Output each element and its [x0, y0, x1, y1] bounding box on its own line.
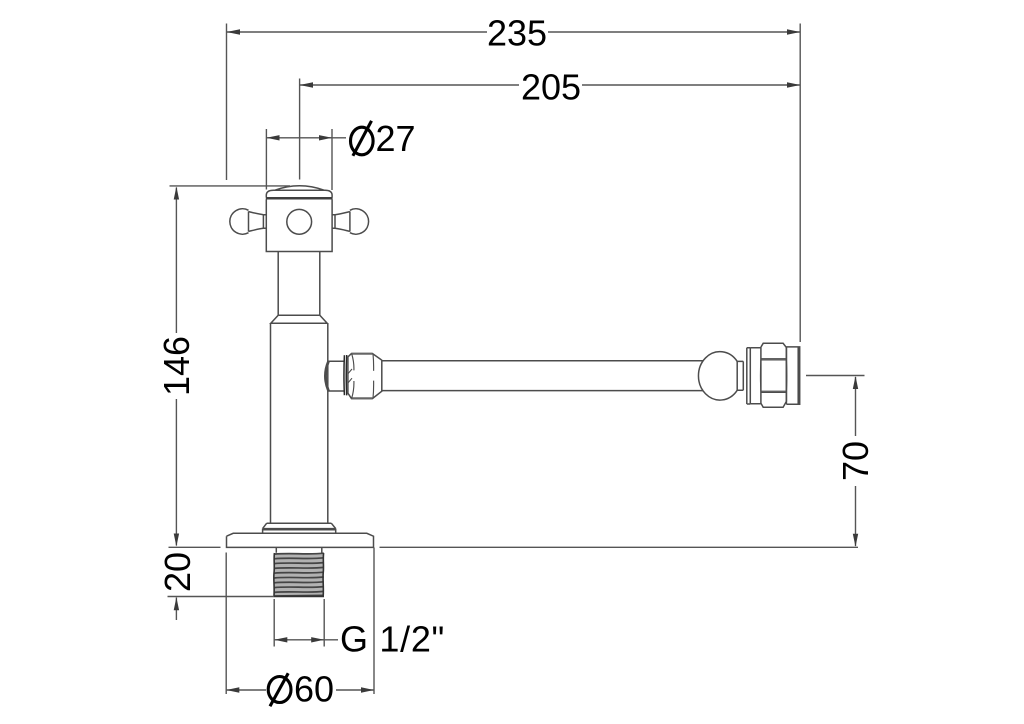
left knob stem top edge: [249, 212, 264, 215]
ext line 70 top: [806, 375, 865, 377]
dim line 205: [300, 84, 801, 86]
svg-text:60: 60: [294, 669, 334, 710]
arrow 146 top: [174, 187, 179, 200]
valve body: [266, 199, 332, 251]
right ball: [698, 352, 737, 400]
arrow 70 bottom: [853, 534, 858, 547]
thread block fill: [274, 553, 324, 596]
dim line d27: [266, 137, 346, 139]
arrow 20 bottom: [174, 597, 179, 610]
diameter symbol d27: [351, 121, 374, 156]
valve body center circle: [287, 209, 312, 234]
arrow 70 top: [853, 376, 858, 389]
outlet stub top and bottom: [328, 361, 344, 391]
arrow G12 left: [274, 637, 287, 642]
right nut facet lines: [762, 359, 786, 393]
ext line 146 top: [170, 185, 291, 187]
arrow 146 bottom: [174, 534, 179, 547]
right nut mid face bulges: [760, 360, 786, 391]
right nut outline: [761, 343, 787, 407]
base flange: [227, 533, 374, 547]
svg-text:70: 70: [835, 441, 876, 481]
nut mid ticks: [348, 369, 352, 383]
nut top bottom thick: [352, 354, 373, 399]
thread lines: [274, 553, 324, 596]
outlet stub end arcs: [325, 361, 329, 391]
valve cap band: [266, 190, 332, 197]
diameter symbol d60: [268, 673, 291, 706]
right rim washer: [747, 348, 751, 404]
svg-text:20: 20: [157, 552, 198, 592]
horizontal pipe: [382, 361, 704, 391]
svg-text:235: 235: [487, 13, 547, 54]
arrow d27 left: [266, 135, 279, 140]
ext line right (235/205): [799, 24, 801, 343]
arrows: [174, 29, 859, 692]
arrow 205 right: [787, 82, 800, 87]
arrow d60 left: [226, 687, 239, 692]
ext line 205 left (center line): [299, 79, 301, 180]
arrow d27 right: [319, 135, 332, 140]
arrow 205 left: [300, 82, 313, 87]
right knob collar edges: [332, 215, 335, 229]
thread bottom edge: [274, 595, 324, 597]
right knob stem bottom edge: [335, 228, 350, 231]
dim line 70: [855, 377, 857, 546]
dim line d60: [226, 689, 374, 691]
thread stub left edge: [276, 547, 322, 552]
right knob junction line: [349, 211, 351, 231]
ext lines d60: [226, 548, 374, 695]
svg-text:G 1/2": G 1/2": [340, 619, 445, 660]
base ring: [263, 529, 336, 534]
valve neck: [278, 252, 320, 316]
svg-text:205: 205: [521, 67, 581, 108]
ext lines d27: [266, 129, 332, 190]
end cylinder: [786, 347, 799, 404]
nut left facet curves: [352, 354, 374, 398]
outlet rim dark band: [344, 355, 347, 395]
arrow 235 left: [227, 29, 241, 34]
dim line G12: [274, 639, 338, 641]
left knob collar edges: [263, 215, 266, 229]
ext line 146/20 mid: [169, 546, 221, 548]
thread side edges: [274, 553, 324, 596]
right knob stem top edge: [335, 212, 350, 215]
left knob collar line: [262, 215, 264, 229]
riser pipe: [271, 323, 328, 523]
svg-text:27: 27: [376, 118, 416, 159]
right collar cylinder: [750, 348, 761, 404]
left knob junction line: [248, 211, 250, 231]
ext lines G12: [274, 599, 324, 647]
valve cap bottom thick line: [266, 197, 333, 200]
dim line 20 lower shaft: [175, 598, 177, 621]
left knob ball: [230, 209, 249, 234]
left knob stem bottom edge: [249, 228, 264, 231]
ext line 235 left: [226, 24, 228, 181]
base step1: [263, 523, 336, 528]
compression nut left: [348, 354, 382, 399]
arrow 235 right: [787, 29, 800, 34]
dim line 235: [227, 31, 801, 33]
svg-text:146: 146: [156, 336, 197, 396]
ext line 20 bottom: [168, 596, 275, 598]
right knob ball: [350, 209, 369, 234]
right knob collar line: [334, 215, 336, 229]
dimension graphics: [168, 24, 865, 695]
ball waist: [737, 361, 743, 391]
ext line 70 bottom: [380, 546, 859, 548]
arrow G12 right: [311, 637, 324, 642]
arrow d60 right: [361, 687, 374, 692]
neck flare: [271, 315, 327, 323]
valve cap dome arc: [275, 186, 325, 191]
dim line 146: [175, 188, 177, 546]
